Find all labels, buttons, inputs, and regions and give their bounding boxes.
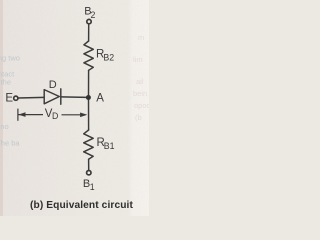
svg-text:bein: bein — [133, 89, 147, 98]
svg-text:ut no: ut no — [0, 122, 9, 131]
svg-text:B1: B1 — [104, 141, 115, 151]
svg-text:(b) Equivalent circuit: (b) Equivalent circuit — [30, 200, 133, 211]
svg-text:D: D — [49, 79, 57, 91]
svg-text:opoq: opoq — [134, 101, 149, 110]
svg-text:ning two: ning two — [0, 54, 20, 63]
svg-text:E: E — [5, 92, 13, 104]
svg-text:d. The ba: d. The ba — [0, 139, 20, 148]
svg-text:A: A — [96, 92, 104, 104]
svg-text:m: m — [138, 33, 144, 42]
svg-text:2: 2 — [91, 10, 96, 20]
svg-text:B2: B2 — [103, 53, 114, 63]
svg-text:(b: (b — [135, 113, 142, 122]
svg-text:1: 1 — [90, 182, 95, 192]
svg-text:D: D — [52, 111, 58, 121]
svg-text:and the: and the — [0, 78, 11, 87]
svg-text:ail: ail — [136, 77, 144, 86]
svg-text:lim: lim — [133, 55, 143, 64]
